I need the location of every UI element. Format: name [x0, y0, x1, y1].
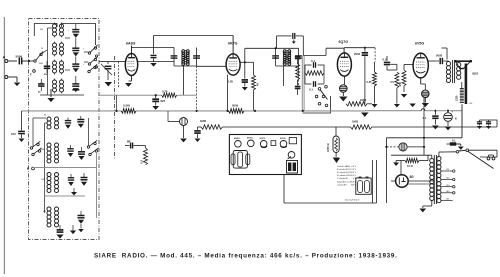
transformer taps	[441, 169, 455, 201]
capacitor row1 trim	[65, 118, 71, 129]
svg-text:6K7G: 6K7G	[247, 137, 253, 139]
IF1 bottom bar	[174, 65, 197, 67]
tube V4 bypass	[422, 90, 430, 98]
wire b+ top right	[362, 45, 466, 58]
wire upper box left bus	[48, 28, 53, 95]
pilot lamp	[180, 118, 188, 126]
chassis label v2	[247, 137, 253, 139]
label screen res	[256, 83, 260, 86]
wire rect leads	[391, 181, 434, 184]
wire pt top	[432, 152, 444, 158]
capacitor row4 right	[78, 211, 85, 229]
wire V1 top cap	[131, 46, 133, 54]
legend text	[337, 165, 357, 187]
wire x116 vertical	[116, 95, 118, 111]
phono switch contacts	[315, 85, 328, 106]
label V3 load	[366, 80, 372, 84]
wire upper box mid links	[65, 38, 70, 70]
wire lower gray mid	[33, 168, 97, 197]
svg-text:300: 300	[40, 29, 43, 31]
capacitor 0.1 (AF coupling upper)	[308, 59, 321, 68]
wire V2 grid left	[197, 65, 226, 67]
wire lower left bus	[33, 118, 47, 213]
capacitor C3 fixed	[72, 76, 79, 92]
capacitor row2 trim	[67, 145, 73, 157]
wire IF2 sec down	[283, 66, 285, 86]
resistor screen (V2)	[252, 75, 256, 111]
capacitor IF2 right	[295, 56, 302, 58]
svg-text:6,3 V: 6,3 V	[351, 172, 356, 174]
ground (lamp)	[180, 126, 187, 143]
ground (row4 c)	[78, 229, 84, 232]
chassis socket 80	[288, 152, 295, 159]
label 4050	[326, 143, 330, 152]
svg-text:1MΩ: 1MΩ	[200, 119, 207, 123]
capacitor 2500	[354, 48, 368, 104]
capacitor 5000 (antenna series)	[16, 55, 30, 65]
coil L1a (band1 row1)	[53, 24, 57, 36]
capacitor row3 trim	[68, 174, 74, 186]
label V4 cath res	[398, 81, 402, 86]
coil L8a (band2 row4)	[47, 207, 51, 227]
ground (mains cap)	[456, 144, 464, 150]
coil L5b (band2 row1)	[55, 117, 59, 129]
coil L2a (band1 row2)	[53, 43, 57, 55]
svg-text:campo A.P.: campo A.P.	[337, 183, 347, 186]
svg-text:0.245: 0.245	[123, 104, 130, 108]
ground (antenna earth)	[14, 83, 20, 87]
svg-text:8Ω5: 8Ω5	[472, 72, 478, 76]
coil L5a (band2 row1)	[47, 117, 51, 129]
label 0.5 coupling	[383, 57, 387, 61]
phono switch lever	[320, 90, 327, 100]
capacitor det top	[295, 57, 301, 59]
capacitor det bottom	[295, 87, 301, 96]
capacitor MF small	[125, 140, 146, 149]
wire prim top	[447, 60, 450, 62]
wire mains right	[468, 150, 497, 157]
band switch S2c	[87, 140, 97, 148]
wire lamp leads	[385, 146, 425, 148]
ground (V4 bypass)	[422, 98, 429, 108]
svg-text:0.05: 0.05	[228, 80, 234, 84]
wire line y95	[99, 94, 197, 96]
svg-text:0.5: 0.5	[140, 159, 144, 163]
ground (grid trimmer)	[105, 82, 113, 86]
power transformer core	[434, 155, 436, 204]
chassis socket V4	[280, 141, 287, 148]
capacitor out1 + gnd	[477, 120, 482, 129]
output transformer core	[453, 60, 455, 83]
IF2 left lead	[275, 48, 277, 66]
svg-text:6A8G: 6A8G	[126, 42, 136, 46]
ground (V4 grid return)	[409, 104, 415, 108]
coil L2b (band1 row2)	[60, 43, 64, 55]
wire V4 cathode lead	[421, 78, 426, 90]
wire pt bottom ground	[419, 201, 431, 212]
wire row4 links	[55, 79, 62, 94]
label 6A8G	[126, 42, 136, 46]
node psu caps	[434, 110, 449, 112]
ground (upper box bottom)	[47, 89, 54, 102]
terminal F upper	[30, 70, 35, 77]
capacitor 100 left	[11, 111, 25, 142]
svg-text:5000: 5000	[232, 104, 239, 108]
wire IF2 avc down	[298, 66, 300, 85]
wire right caps	[480, 120, 498, 127]
wire rect anode	[400, 161, 402, 175]
chassis label v1	[234, 137, 240, 140]
coil L4b (band1 row4)	[60, 80, 64, 92]
wire V2 cathode	[227, 75, 229, 112]
svg-text:A: A	[3, 55, 6, 60]
wire V1 right	[138, 61, 174, 63]
wire det to V3 grid	[303, 48, 344, 55]
capacitor 8uF psu	[444, 111, 457, 131]
svg-text:6,3 V: 6,3 V	[351, 169, 356, 171]
wire coupling net	[375, 56, 397, 70]
wire antenna to C1	[8, 60, 17, 62]
svg-text:16+16 μF 450 V: 16+16 μF 450 V	[345, 200, 360, 202]
wire V2 plate right	[240, 62, 253, 75]
mains plug	[487, 155, 495, 160]
capacitor IF2 left	[272, 56, 279, 58]
svg-text:c: c	[68, 30, 69, 32]
wire det column	[302, 36, 304, 111]
resistor 0.245	[121, 104, 136, 114]
ground (ps left)	[393, 161, 399, 166]
capacitor B+ series	[293, 33, 304, 39]
chassis square	[271, 141, 276, 146]
band switch S1b	[88, 45, 97, 57]
svg-text:c: c	[83, 64, 84, 66]
tube V1 6A8G	[125, 54, 137, 76]
chassis label v4	[280, 138, 286, 140]
resistor grid V5	[395, 72, 399, 104]
tube V3 diode hat	[340, 76, 348, 92]
resistor V3 load	[373, 62, 377, 104]
wire V2 plate up	[245, 48, 276, 62]
svg-text:1MΩ: 1MΩ	[352, 120, 359, 124]
ground (V2 bypass)	[242, 87, 248, 90]
svg-text:c: c	[83, 48, 84, 50]
terminal A (antenna)	[3, 55, 8, 63]
resistor 1M avc	[344, 97, 372, 107]
wire V1 plate to IF1	[132, 47, 175, 49]
coil L1b (band1 row1)	[60, 24, 64, 36]
label 80	[410, 175, 414, 179]
tube V2 6K7G	[226, 54, 240, 75]
band switch S2a	[30, 141, 40, 149]
wire IF1 sec down	[183, 65, 185, 96]
capacitor 0.1 psu	[423, 111, 439, 130]
capacitor 0.05 (V2 bypass)	[228, 62, 248, 86]
ground (bus end)	[361, 113, 369, 117]
output transformer secondary	[457, 63, 461, 80]
wire V3 right dash	[374, 48, 376, 62]
ground tick (B+ cap)	[292, 40, 296, 44]
svg-text:II valvola 6K7G: II valvola 6K7G	[337, 169, 351, 171]
coil L3a (band1 row3)	[53, 61, 57, 73]
avc bus y111	[22, 110, 365, 112]
resistor 5000 bus	[229, 104, 245, 114]
capacitor padder KM	[44, 61, 50, 76]
wire pot feed	[335, 127, 337, 136]
wire box to tube1 grid	[99, 61, 126, 63]
capacitor AF->V5 coupling	[384, 56, 390, 70]
band switch S1a	[34, 51, 43, 62]
coil L4a (band1 row4)	[53, 80, 57, 92]
wire lower right bus	[89, 118, 97, 218]
coil L3b (band1 row3)	[60, 61, 64, 73]
svg-text:F: F	[27, 167, 29, 171]
label coil values lower	[41, 115, 46, 214]
capacitor 8uF AF	[194, 127, 200, 142]
chassis rect tr	[289, 138, 296, 144]
shield box (dash-dot outline)	[29, 19, 100, 240]
svg-text:I valvola 6A8G: I valvola 6A8G	[337, 165, 350, 168]
svg-text:0.1: 0.1	[309, 88, 313, 92]
capacitor IF1 left	[171, 56, 178, 58]
band switch S1d	[88, 64, 97, 72]
IF2 bottom bar	[276, 65, 299, 67]
capacitor row2 fixed	[78, 147, 85, 160]
caption title	[94, 253, 398, 260]
svg-text:2500: 2500	[354, 52, 361, 56]
legend electrolytic can	[356, 177, 371, 194]
resistor 0.75	[162, 90, 177, 98]
IF1 right lead	[196, 48, 198, 67]
ground (row3)	[71, 188, 77, 195]
power transformer secondary	[437, 157, 441, 203]
svg-text:250: 250	[398, 81, 402, 86]
band switch S1c	[88, 56, 97, 68]
potentiometer 4050	[333, 136, 339, 153]
wire S1a to node	[29, 50, 47, 61]
scan border left edge	[3, 17, 5, 274]
chassis socket V2	[248, 140, 255, 147]
svg-text:6V5G: 6V5G	[280, 138, 286, 140]
label coil values upper	[39, 29, 84, 85]
wire row3 links	[55, 60, 62, 75]
ground (pot)	[333, 153, 340, 162]
tube V4 6V5G	[413, 53, 428, 78]
capacitor row3 fixed	[81, 173, 88, 186]
IF2 top bar	[276, 47, 299, 49]
ground (row4 b)	[70, 225, 76, 234]
svg-text:4050 Ω: 4050 Ω	[326, 143, 330, 152]
svg-text:6V5G: 6V5G	[415, 42, 424, 46]
speaker field coil	[460, 89, 464, 103]
mains switch	[444, 149, 469, 153]
band switch S2b	[32, 148, 42, 156]
capacitor C2 fixed	[72, 38, 79, 56]
trimmer CT2	[72, 57, 79, 73]
svg-text:80: 80	[44, 115, 46, 117]
lamp dial	[399, 143, 407, 151]
capacitor osc padder	[151, 55, 157, 62]
wire V1 cathode	[131, 76, 133, 82]
IF transformer T1	[181, 50, 189, 66]
wire speaker b+ stub	[442, 48, 448, 60]
wire V4 plate	[428, 60, 434, 62]
node bus dots	[115, 110, 304, 112]
svg-text:0.5: 0.5	[390, 80, 394, 84]
chassis label v3	[260, 138, 266, 140]
node V3 plate	[364, 47, 366, 49]
wire top loop left	[34, 24, 57, 37]
ps box wires	[386, 138, 431, 203]
wire hv return y137.8	[386, 98, 462, 155]
svg-text:0.1: 0.1	[423, 116, 427, 120]
wire det col	[297, 60, 299, 86]
af bus y127	[198, 126, 498, 128]
svg-text:IV valvola 6V5G: IV valvola 6V5G	[337, 175, 352, 177]
coil L6b (band2 row2)	[55, 143, 59, 163]
svg-text:0.25: 0.25	[366, 80, 372, 84]
wire top loop right	[62, 24, 96, 46]
label field coil	[456, 95, 459, 101]
IF2 right lead	[298, 48, 300, 66]
mains switch lever long	[468, 151, 494, 169]
svg-text:625: 625	[161, 99, 166, 103]
svg-text:50: 50	[41, 48, 43, 50]
svg-text:6,3 V: 6,3 V	[351, 166, 356, 168]
tube V5 80 rectifier	[396, 175, 409, 188]
wire V1 left dash	[118, 62, 120, 89]
label speaker 8ohm	[472, 72, 478, 76]
resistor V4 cathode	[402, 65, 406, 93]
shield divider dash-dot x=114.5	[114, 56, 116, 160]
ground (V3 cathode)	[339, 92, 347, 101]
bus right extension	[365, 104, 462, 138]
wire IF2 top b+	[277, 36, 292, 48]
ground (row4 a)	[56, 235, 63, 239]
power transformer primary	[430, 159, 434, 201]
label 6Q7G	[339, 40, 349, 44]
capacitor grid trimmer	[101, 62, 112, 81]
legend arrow	[333, 158, 340, 163]
capacitor 625 + ground	[152, 95, 165, 110]
capacitor IF1 right	[193, 56, 200, 58]
svg-text:F: F	[30, 73, 32, 77]
legend bottom text	[345, 200, 360, 202]
coil L6a (band2 row2)	[47, 143, 51, 163]
capacitor row4	[57, 225, 64, 232]
resistor det load	[296, 64, 300, 80]
label 6K7G	[228, 42, 238, 46]
resistor 1M first	[200, 119, 222, 129]
coil L7b (band2 row3)	[55, 173, 59, 193]
svg-text:80: 80	[410, 175, 414, 179]
svg-text:0.1: 0.1	[452, 139, 456, 143]
wire osc coupling	[84, 52, 88, 62]
chassis socket V3	[260, 141, 267, 148]
chassis socket V1	[235, 141, 242, 148]
ground (grid V5)	[394, 104, 400, 107]
wire sec to field	[459, 71, 462, 89]
wire upper box bottom rail	[40, 94, 84, 96]
svg-text:6Q7G: 6Q7G	[339, 40, 349, 44]
band switch S2d	[89, 148, 99, 156]
capacitor 0.01 phono	[314, 96, 316, 98]
svg-text:SIARE RADIO. — Mod. 445. – Me: SIARE RADIO. — Mod. 445. – Media frequen…	[94, 253, 398, 260]
wire IF1 avc down	[196, 66, 198, 111]
svg-text:6Q7G: 6Q7G	[260, 138, 266, 140]
wire V4 grid	[397, 63, 413, 65]
chassis IF can	[231, 151, 250, 169]
svg-text:3000: 3000	[39, 63, 43, 65]
ground (V3 load)	[372, 104, 378, 107]
svg-text:0.5: 0.5	[383, 57, 387, 61]
node V2 plate	[244, 61, 246, 63]
ground (V1 cathode)	[125, 81, 132, 87]
terminal F	[27, 167, 34, 171]
chassis outline	[229, 135, 301, 175]
svg-text:6,3 V: 6,3 V	[351, 175, 356, 177]
resistor 505 vertical	[140, 146, 148, 166]
svg-text:100: 100	[11, 132, 16, 136]
svg-text:III valvola 6Q7G: III valvola 6Q7G	[337, 172, 352, 174]
wire lamp left	[168, 111, 180, 122]
wire oscillator feedback	[154, 36, 234, 55]
ground (V4 cath res)	[401, 94, 407, 98]
speaker voice coil frame	[465, 64, 468, 105]
svg-text:KM: KM	[44, 74, 48, 76]
wire row1 links	[55, 23, 62, 38]
svg-text:V valvola 80: V valvola 80	[337, 178, 349, 180]
ground (osc padder)	[150, 63, 156, 67]
output transformer T3 primary	[446, 62, 450, 83]
capacitor 0.1 (AF lower)	[305, 73, 324, 92]
resistor AF (loop)	[305, 65, 324, 75]
capacitor padder 45	[38, 79, 45, 94]
resistor 15ohm	[396, 155, 428, 168]
phono box outline	[303, 96, 331, 113]
coil L7a (band2 row3)	[47, 173, 51, 193]
label grid V5	[390, 80, 394, 84]
svg-text:6A8G: 6A8G	[234, 137, 240, 140]
svg-text:1250: 1250	[456, 95, 459, 101]
svg-text:15 Ω: 15 Ω	[407, 164, 413, 168]
legend wires	[284, 160, 377, 203]
node y95 junction	[155, 94, 157, 96]
IF1 left lead	[173, 48, 175, 67]
capacitor out2 + gnd	[486, 120, 491, 129]
capacitor 0.1 mains	[447, 139, 460, 146]
IF transformer T2	[283, 50, 291, 66]
chassis transformer box	[287, 157, 298, 174]
coil L8b (band2 row4)	[55, 207, 59, 227]
label 6V5G	[415, 42, 424, 46]
capacitor row1 fixed	[77, 116, 84, 128]
svg-text:5000: 5000	[436, 54, 443, 58]
trimmer CT1	[72, 24, 79, 38]
terminal ground (aerial earth)	[5, 76, 17, 83]
node antenna junction	[28, 60, 30, 62]
svg-text:lampadine scala: lampadine scala	[337, 181, 352, 183]
speaker cone	[454, 60, 472, 69]
wire row2 links	[55, 42, 62, 57]
svg-text:MF: MF	[127, 140, 131, 144]
node IF2 tl	[275, 47, 277, 49]
tube V3 6Q7G	[337, 53, 351, 76]
svg-text:210: 210	[40, 83, 43, 85]
wire V3 plate top	[344, 47, 375, 49]
label +30	[469, 103, 473, 105]
wire V3 top	[343, 48, 345, 53]
resistor 1M second	[351, 120, 372, 130]
